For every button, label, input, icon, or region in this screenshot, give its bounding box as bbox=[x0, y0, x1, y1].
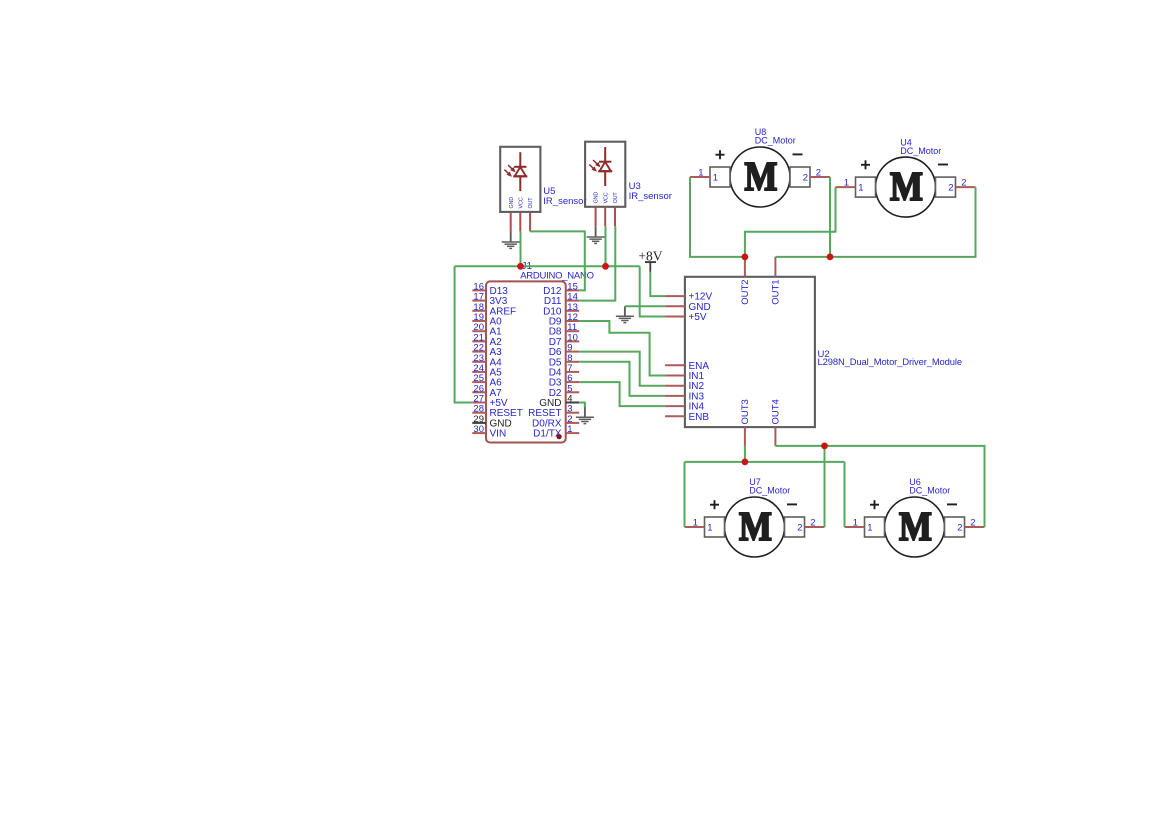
svg-text:M: M bbox=[890, 164, 923, 209]
svg-text:M: M bbox=[739, 504, 772, 549]
L298N module U2 body bbox=[685, 277, 815, 427]
svg-text:2: 2 bbox=[810, 518, 815, 529]
svg-text:VIN: VIN bbox=[490, 429, 507, 440]
svg-text:OUT: OUT bbox=[528, 197, 534, 209]
svg-text:+5V: +5V bbox=[689, 312, 707, 323]
L298N pin ENA bbox=[665, 361, 709, 372]
arduino pin 30 (VIN) left bbox=[472, 424, 506, 440]
wire OUT4 junction to motor U7 pin 2 bbox=[824, 446, 826, 527]
svg-text:OUT4: OUT4 bbox=[771, 399, 782, 424]
DC motor U8 bbox=[690, 147, 830, 207]
wire motor U8 pin 2 down to OUT1 net bbox=[829, 177, 831, 257]
wire +8V to L298N +12V pin bbox=[650, 272, 665, 296]
junction OUT1 net / U8 pin 2 bbox=[827, 254, 834, 261]
wire OUT1 to motor U4 pin 2 bbox=[775, 187, 975, 257]
svg-text:1: 1 bbox=[698, 168, 703, 179]
junction +5V bus / U3 VCC bbox=[602, 263, 609, 270]
ground symbol at IR sensor U3 bbox=[587, 226, 605, 243]
ground symbol at IR sensor U5 bbox=[502, 231, 520, 248]
svg-text:GND: GND bbox=[594, 192, 600, 204]
wire U5 VCC to +5V bus bbox=[520, 231, 522, 266]
arduino pin 1 (D1/TX) right bbox=[533, 424, 579, 440]
wire OUT3 pin extension bbox=[744, 446, 746, 462]
DC motor U4 bbox=[836, 157, 976, 217]
svg-text:VCC: VCC bbox=[518, 197, 524, 208]
IR sensor U5 labels bbox=[543, 186, 586, 207]
DC motor U4 labels bbox=[900, 137, 941, 156]
svg-text:2: 2 bbox=[803, 172, 808, 183]
svg-text:VCC: VCC bbox=[603, 192, 609, 203]
svg-text:DC_Motor: DC_Motor bbox=[749, 486, 790, 496]
DC motor U8 labels bbox=[755, 127, 796, 146]
arduino pin 3 (RESET) right bbox=[528, 404, 579, 420]
arduino pin 6 (D3) right bbox=[549, 373, 579, 389]
svg-text:DC_Motor: DC_Motor bbox=[909, 486, 950, 496]
arduino pin 27 (+5V) left bbox=[472, 394, 508, 410]
arduino pin 7 (D4) right bbox=[549, 363, 579, 379]
ground symbol at L298N GND pin bbox=[616, 306, 634, 322]
svg-text:OUT: OUT bbox=[613, 192, 619, 204]
arduino pin 20 (A1) left bbox=[472, 322, 502, 338]
svg-text:ARDUINO_NANO: ARDUINO_NANO bbox=[520, 271, 594, 282]
wire L298N GND pin to ground bbox=[625, 305, 665, 307]
L298N pin OUT4 (bottom) bbox=[771, 399, 782, 446]
svg-text:OUT3: OUT3 bbox=[740, 399, 751, 424]
wire arduino D3 to L298N IN4 bbox=[579, 382, 665, 406]
IR sensor U3 body bbox=[585, 142, 625, 227]
svg-text:ENB: ENB bbox=[689, 412, 710, 423]
power symbol +8V bbox=[638, 248, 662, 272]
L298N pin IN3 bbox=[665, 391, 704, 402]
arduino pin 22 (A3) left bbox=[472, 343, 502, 359]
L298N pin ENB bbox=[665, 412, 709, 423]
arduino nano J1 body bbox=[486, 281, 566, 442]
svg-text:2: 2 bbox=[961, 178, 966, 189]
svg-text:OUT1: OUT1 bbox=[771, 279, 782, 304]
wire arduino D5 to L298N IN3 bbox=[579, 362, 665, 396]
DC motor U6 labels bbox=[909, 477, 950, 496]
junction OUT4 net / U7 pin 2 bbox=[821, 443, 828, 450]
wire OUT3 net to motor U6 pin 1 bbox=[844, 462, 846, 527]
wire arduino D6 to L298N IN2 bbox=[579, 352, 665, 386]
wire motor U8 pin 1 to OUT2 bbox=[690, 177, 745, 257]
svg-text:DC_Motor: DC_Motor bbox=[900, 146, 941, 156]
arduino nano designator J1 bbox=[522, 261, 533, 272]
wire +5V bus to L298N +5V pin bbox=[640, 266, 665, 316]
junction +5V bus / U5 VCC bbox=[517, 263, 524, 270]
svg-text:2: 2 bbox=[957, 522, 962, 533]
arduino pin 17 (3V3) left bbox=[472, 292, 507, 308]
svg-text:1: 1 bbox=[707, 522, 712, 533]
svg-text:30: 30 bbox=[473, 424, 484, 435]
wire arduino GND pin 4 to ground bbox=[579, 403, 585, 408]
svg-text:1: 1 bbox=[713, 172, 718, 183]
ground symbol at arduino GND pin 4 bbox=[576, 407, 594, 424]
L298N pin OUT1 (top) bbox=[771, 257, 782, 305]
junction OUT3 net bbox=[742, 459, 749, 466]
arduino pin 28 (RESET) left bbox=[472, 404, 523, 420]
L298N pin IN1 bbox=[665, 371, 704, 382]
L298N pin GND bbox=[665, 302, 711, 313]
svg-text:GND: GND bbox=[509, 197, 515, 209]
DC motor U7 labels bbox=[749, 477, 790, 496]
arduino pin 24 (A5) left bbox=[472, 363, 502, 379]
arduino pin 11 (D8) right bbox=[549, 322, 579, 338]
arduino nano value ARDUINO_NANO bbox=[520, 271, 594, 282]
arduino pin 12 (D9) right bbox=[549, 312, 579, 328]
wire OUT2 junction to motor U4 pin 1 bbox=[745, 187, 836, 257]
svg-text:1: 1 bbox=[567, 424, 572, 435]
svg-text:2: 2 bbox=[816, 168, 821, 179]
arduino symbol anchor dot bbox=[557, 434, 562, 439]
arduino pin 25 (A6) left bbox=[472, 373, 502, 389]
arduino pin 14 (D11) right bbox=[544, 292, 579, 308]
arduino pin 26 (A7) left bbox=[472, 383, 502, 399]
svg-text:L298N_Dual_Motor_Driver_Module: L298N_Dual_Motor_Driver_Module bbox=[818, 356, 962, 367]
arduino pin 10 (D7) right bbox=[549, 332, 579, 348]
L298N designator U2 bbox=[818, 349, 830, 360]
wire +5V bus to arduino +5V pin 27 bbox=[455, 266, 473, 402]
DC motor U7 bbox=[685, 497, 825, 557]
arduino pin 21 (A2) left bbox=[472, 332, 502, 348]
wire U3 OUT to arduino D11 bbox=[579, 226, 615, 300]
svg-text:2: 2 bbox=[797, 522, 802, 533]
svg-text:M: M bbox=[899, 504, 932, 549]
L298N value L298N_Dual_Motor_Driver_Module bbox=[818, 356, 962, 367]
wire arduino D9 to L298N IN1 bbox=[579, 321, 665, 376]
svg-text:1: 1 bbox=[853, 518, 858, 529]
arduino pin 8 (D5) right bbox=[549, 353, 579, 369]
IR sensor U3 labels bbox=[629, 181, 672, 202]
svg-text:IR_sensor: IR_sensor bbox=[629, 191, 672, 202]
svg-text:2: 2 bbox=[948, 183, 953, 194]
arduino pin 18 (AREF) left bbox=[472, 302, 516, 318]
wire OUT3 net to motor U7 pin 1 bbox=[684, 462, 686, 527]
svg-text:M: M bbox=[744, 154, 777, 199]
junction OUT2 net bbox=[742, 254, 749, 261]
L298N pin OUT3 (bottom) bbox=[740, 399, 751, 446]
L298N pin +12V bbox=[665, 292, 712, 303]
svg-text:OUT2: OUT2 bbox=[740, 279, 751, 304]
svg-text:1: 1 bbox=[858, 183, 863, 194]
arduino pin 19 (A0) left bbox=[472, 312, 502, 328]
wire +5V bus horizontal bbox=[455, 265, 640, 267]
arduino pin 5 (D2) right bbox=[549, 383, 579, 399]
svg-text:IR_sensor: IR_sensor bbox=[543, 196, 586, 207]
arduino pin 9 (D6) right bbox=[549, 343, 579, 359]
L298N pin IN4 bbox=[665, 402, 704, 413]
wire OUT4 net horizontal to motor U6 pin 2 bbox=[775, 446, 984, 527]
wire U3 VCC to +5V bus bbox=[605, 226, 607, 266]
arduino pin 29 (GND) left bbox=[472, 414, 511, 430]
wire OUT3 net horizontal bbox=[685, 461, 845, 463]
DC motor U6 bbox=[845, 497, 985, 557]
wire U5 OUT to arduino D12 bbox=[530, 231, 585, 290]
arduino pin 23 (A4) left bbox=[472, 353, 502, 369]
L298N pin +5V bbox=[665, 312, 707, 323]
arduino pin 15 (D12) right bbox=[543, 281, 579, 297]
L298N pin IN2 bbox=[665, 381, 704, 392]
arduino pin 4 (GND) right bbox=[539, 394, 579, 410]
arduino pin 13 (D10) right bbox=[543, 302, 579, 318]
arduino pin 16 (D13) left bbox=[472, 281, 508, 297]
IR sensor U5 body bbox=[500, 147, 540, 232]
L298N pin OUT2 (top) bbox=[740, 257, 751, 305]
svg-text:1: 1 bbox=[867, 522, 872, 533]
svg-text:1: 1 bbox=[844, 178, 849, 189]
svg-text:+8V: +8V bbox=[638, 248, 662, 263]
svg-text:2: 2 bbox=[970, 518, 975, 529]
arduino pin 2 (D0/RX) right bbox=[532, 414, 579, 430]
svg-text:DC_Motor: DC_Motor bbox=[755, 136, 796, 146]
svg-text:1: 1 bbox=[693, 518, 698, 529]
